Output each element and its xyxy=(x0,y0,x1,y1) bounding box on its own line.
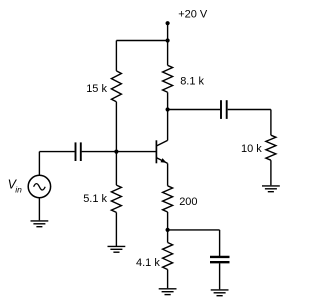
svg-text:10 k: 10 k xyxy=(241,143,262,155)
svg-text:5.1 k: 5.1 k xyxy=(83,193,107,205)
svg-text:15 k: 15 k xyxy=(86,83,107,95)
svg-text:200: 200 xyxy=(179,196,197,208)
svg-text:in: in xyxy=(15,184,22,194)
svg-text:+20 V: +20 V xyxy=(178,9,208,21)
svg-text:4.1 k: 4.1 k xyxy=(136,257,160,269)
svg-text:8.1 k: 8.1 k xyxy=(180,76,204,88)
